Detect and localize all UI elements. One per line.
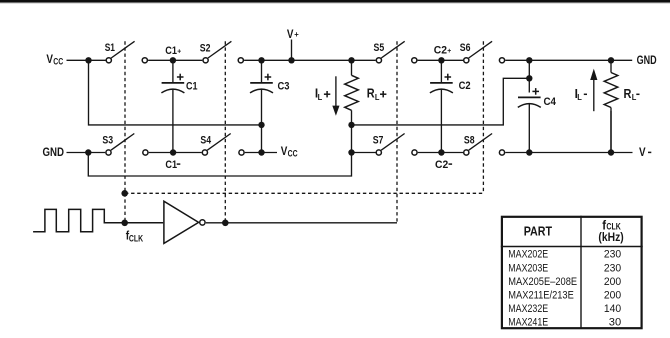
svg-text:MAX203E: MAX203E	[508, 262, 548, 274]
svg-text:R: R	[367, 87, 375, 101]
svg-text:MAX205E–208E: MAX205E–208E	[508, 276, 577, 288]
svg-text:+: +	[294, 29, 299, 39]
svg-text:V: V	[46, 52, 53, 66]
svg-text:MAX241E: MAX241E	[508, 317, 548, 329]
svg-text:R: R	[624, 87, 632, 101]
svg-text:S4: S4	[200, 134, 211, 146]
svg-text:GND: GND	[637, 55, 657, 67]
svg-text:MAX211E/213E: MAX211E/213E	[508, 289, 574, 301]
svg-text:CC: CC	[288, 148, 298, 158]
svg-text:S6: S6	[460, 42, 471, 54]
svg-text:CC: CC	[53, 56, 63, 66]
svg-text:S1: S1	[105, 42, 115, 54]
svg-text:V: V	[287, 27, 294, 41]
svg-text:230: 230	[604, 249, 621, 261]
svg-text:200: 200	[604, 289, 621, 301]
svg-text:L: L	[318, 92, 323, 102]
svg-text:140: 140	[604, 303, 621, 315]
svg-text:L: L	[375, 92, 380, 102]
svg-text:30: 30	[609, 317, 621, 329]
svg-text:V: V	[281, 144, 288, 158]
svg-text:C3: C3	[278, 80, 290, 92]
svg-text:(kHz): (kHz)	[598, 230, 623, 244]
svg-text:MAX232E: MAX232E	[508, 303, 548, 315]
svg-text:+: +	[447, 46, 452, 55]
svg-text:L: L	[632, 92, 637, 102]
svg-text:L: L	[577, 92, 582, 102]
svg-text:S3: S3	[102, 134, 113, 146]
svg-text:PART: PART	[524, 225, 553, 239]
svg-text:+: +	[177, 46, 182, 55]
svg-text:C4: C4	[544, 96, 557, 108]
svg-text:200: 200	[604, 276, 621, 288]
svg-text:C2: C2	[434, 45, 447, 57]
svg-text:230: 230	[604, 262, 621, 274]
svg-text:S8: S8	[464, 134, 475, 146]
svg-text:V: V	[639, 145, 646, 159]
svg-text:S5: S5	[374, 42, 385, 54]
svg-text:C2: C2	[435, 159, 448, 171]
svg-text:S2: S2	[200, 42, 211, 54]
svg-text:MAX202E: MAX202E	[508, 249, 548, 261]
svg-text:GND: GND	[43, 147, 65, 159]
svg-text:C1: C1	[165, 45, 177, 57]
svg-text:C2: C2	[459, 80, 471, 92]
svg-text:C1: C1	[165, 159, 177, 171]
svg-text:S7: S7	[373, 134, 384, 146]
svg-text:C1: C1	[186, 80, 198, 92]
svg-text:CLK: CLK	[129, 233, 143, 243]
